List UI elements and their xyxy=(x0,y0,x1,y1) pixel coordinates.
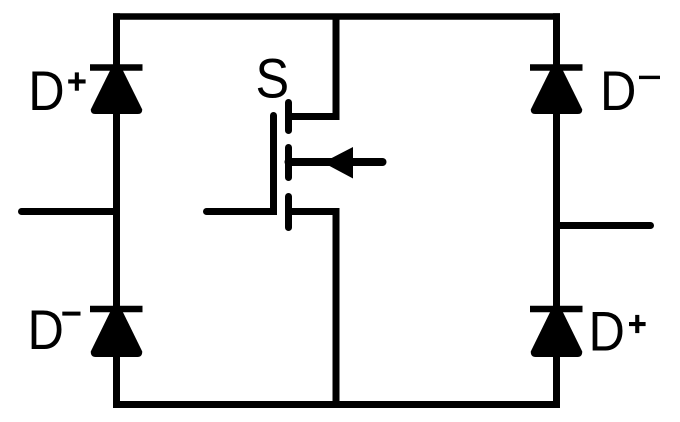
svg-text:D: D xyxy=(600,60,636,122)
svg-text:D: D xyxy=(28,60,64,122)
svg-text:D: D xyxy=(589,301,625,363)
svg-text:D: D xyxy=(28,299,64,361)
svg-text:S: S xyxy=(256,48,290,110)
